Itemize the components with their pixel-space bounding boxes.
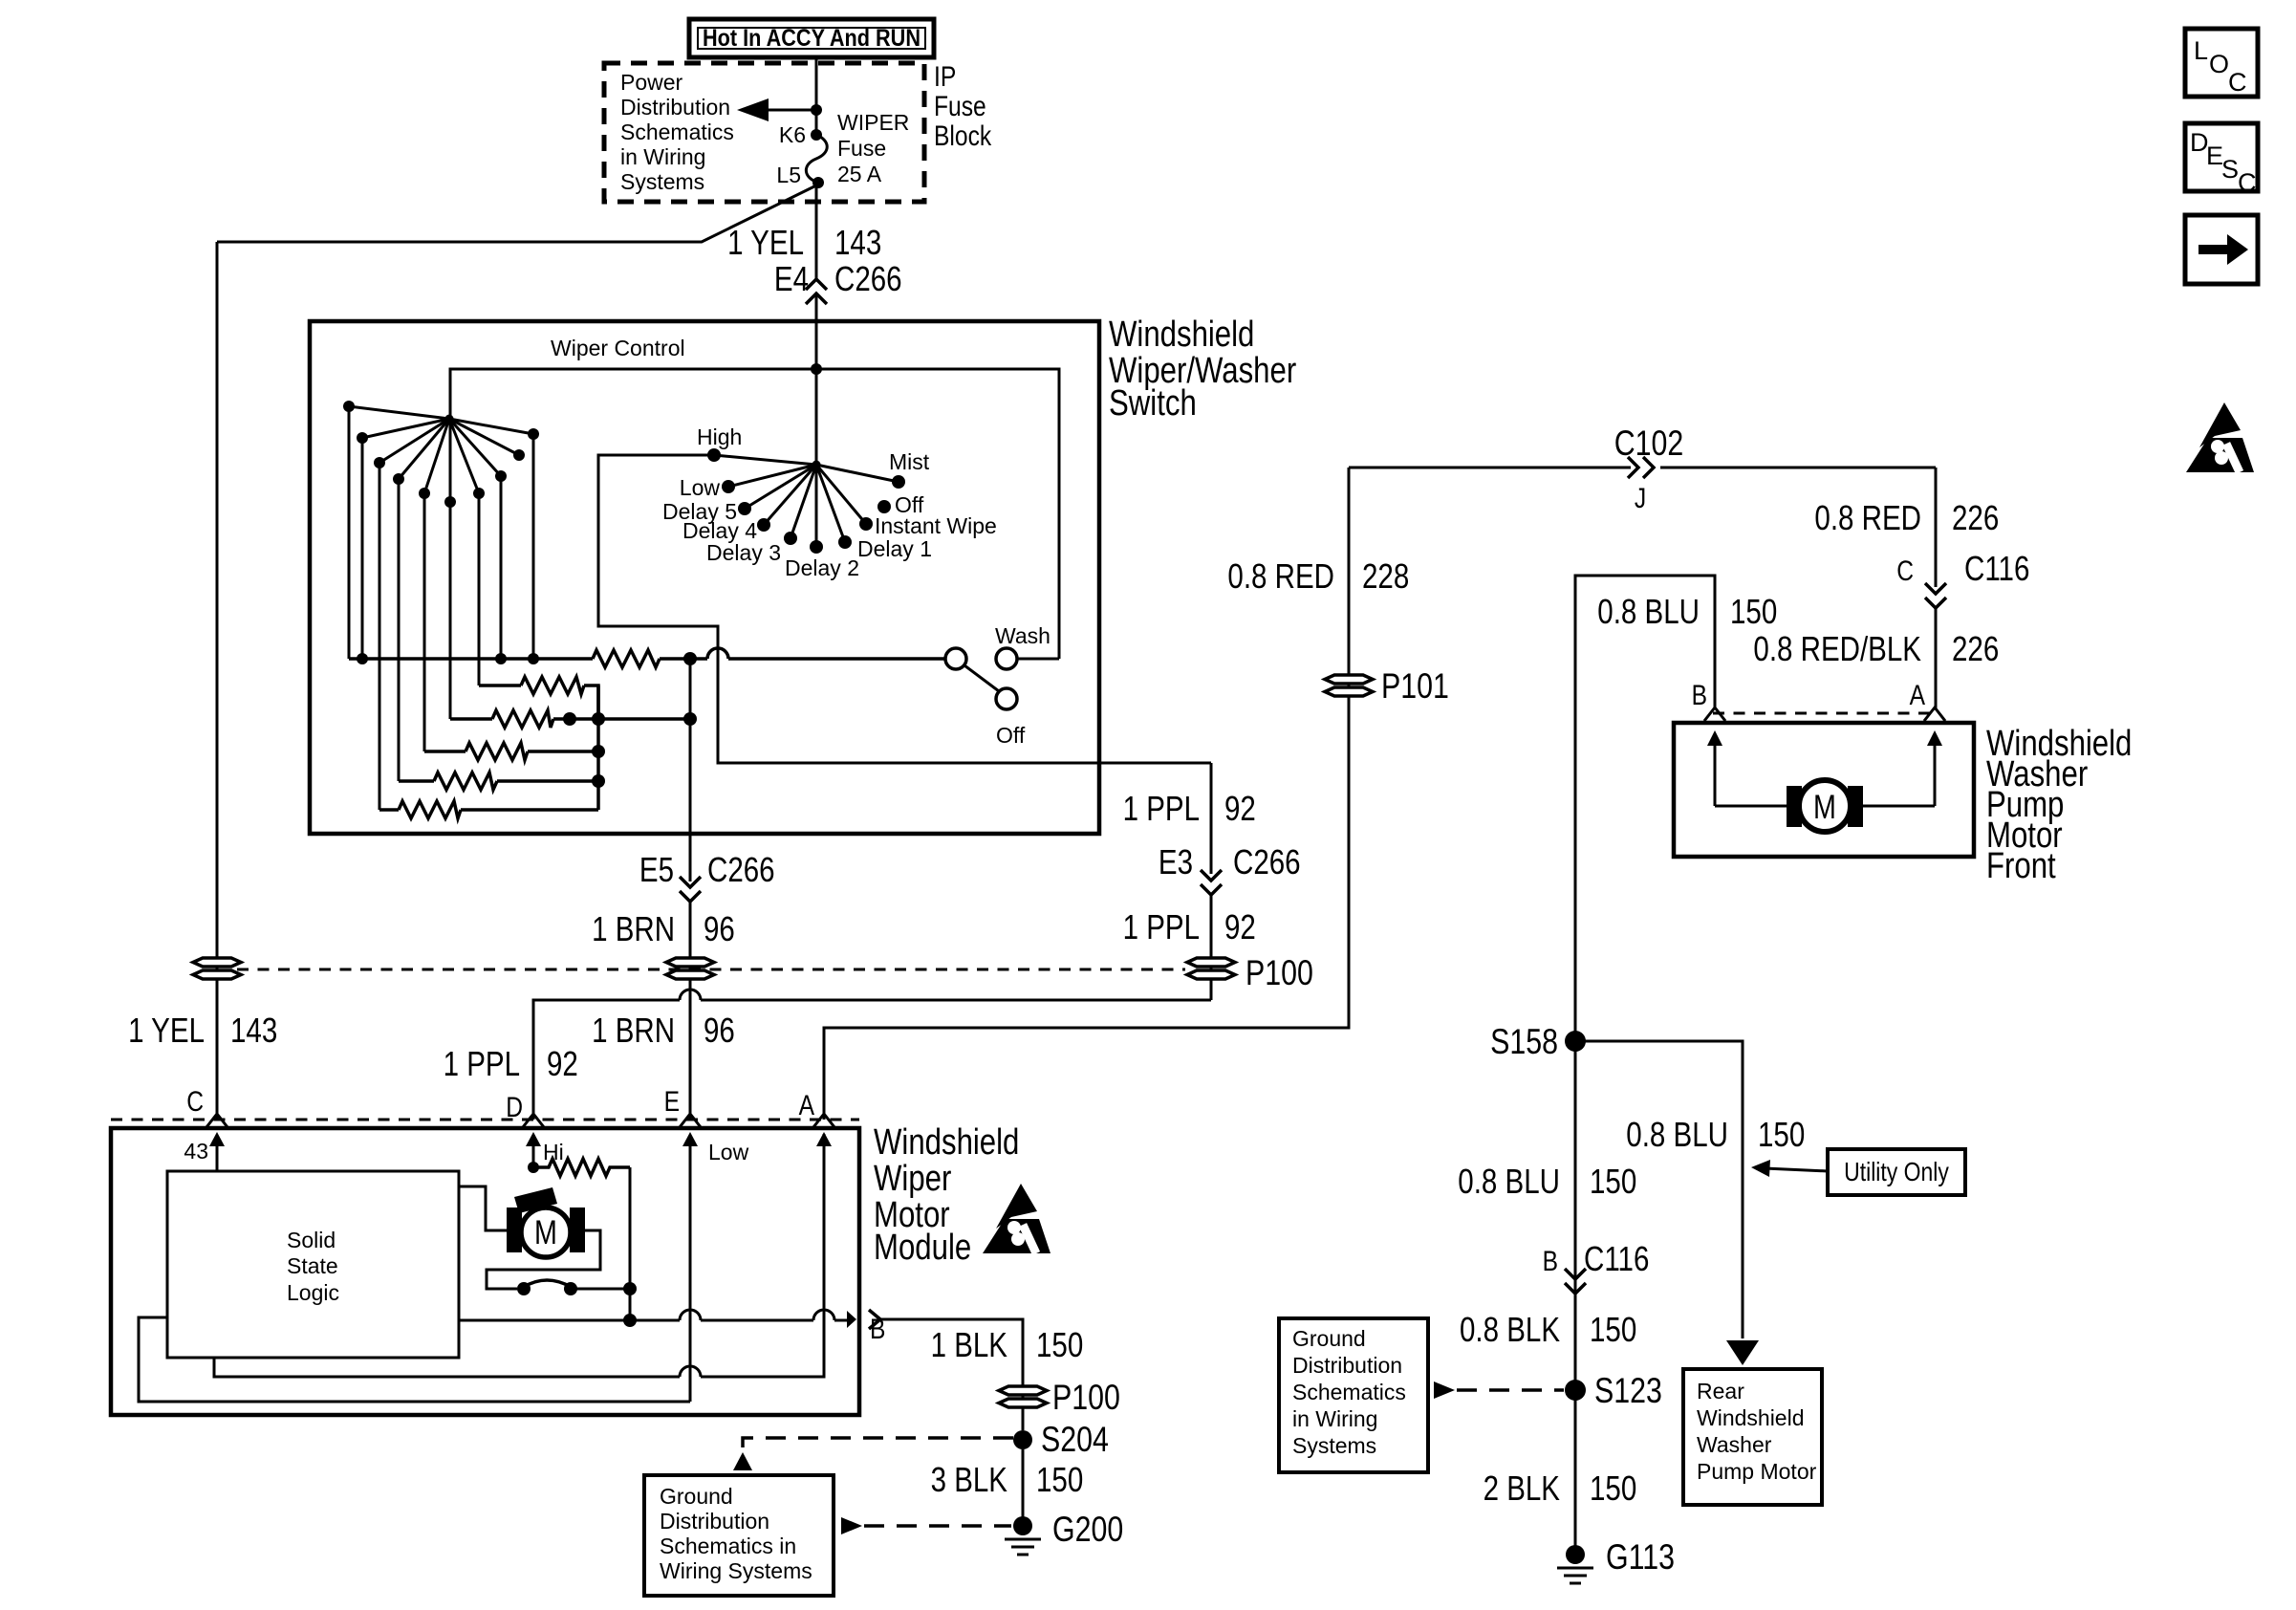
hi resistor tie	[629, 1167, 632, 1320]
park wire to hi tie	[575, 1288, 630, 1291]
svg-text:M: M	[534, 1214, 557, 1251]
svg-text:1 PPL: 1 PPL	[1123, 789, 1200, 828]
inline connector P100 on ppl wire	[1187, 958, 1235, 979]
bus junction dots	[357, 652, 697, 665]
svg-text:K6: K6	[779, 122, 806, 147]
svg-text:226: 226	[1952, 629, 1999, 668]
harness dashed line	[237, 968, 1185, 971]
svg-text:Distribution: Distribution	[1292, 1353, 1402, 1378]
svg-text:A: A	[1910, 680, 1925, 711]
resistor ladder bus	[349, 648, 944, 667]
inline connector P100 on brn wire	[666, 958, 714, 979]
svg-text:L: L	[2194, 36, 2208, 65]
svg-text:Mist: Mist	[889, 449, 930, 474]
svg-text:G113: G113	[1606, 1537, 1675, 1577]
left fan contact dots	[343, 401, 539, 508]
svg-text:Distribution: Distribution	[620, 95, 730, 120]
wire L5 down to C266 E4	[815, 183, 818, 278]
svg-text:Low: Low	[708, 1140, 749, 1164]
node L5	[812, 177, 824, 188]
svg-text:C266: C266	[834, 259, 902, 298]
svg-text:226: 226	[1952, 498, 1999, 537]
resistor R5 row	[399, 772, 598, 790]
svg-text:150: 150	[1036, 1460, 1083, 1499]
dashed ground ref at S204	[743, 1438, 1013, 1449]
wire from feed box into fuse block	[815, 57, 818, 135]
svg-text:Low: Low	[680, 475, 721, 500]
svg-text:L5: L5	[776, 163, 801, 187]
svg-text:Utility Only: Utility Only	[1844, 1157, 1949, 1186]
svg-text:43: 43	[184, 1139, 208, 1164]
svg-text:0.8 BLU: 0.8 BLU	[1597, 592, 1700, 631]
svg-text:Delay 2: Delay 2	[785, 555, 859, 580]
svg-text:E5: E5	[639, 850, 674, 889]
svg-text:Power: Power	[620, 70, 683, 95]
ground distribution note box (left)	[644, 1475, 834, 1596]
wire main pole drop	[815, 369, 818, 547]
svg-text:Instant Wipe: Instant Wipe	[875, 513, 997, 538]
resistor R3 row	[450, 710, 690, 728]
wash switch lever	[964, 665, 999, 691]
connector C102 chevrons	[1628, 457, 1654, 478]
wash contact	[996, 648, 1017, 669]
resistor Hi dropping	[533, 1159, 630, 1176]
svg-text:0.8 BLU: 0.8 BLU	[1458, 1162, 1560, 1201]
node on feed rail	[811, 363, 822, 375]
pin D caret	[523, 1114, 544, 1127]
svg-text:C266: C266	[1233, 842, 1301, 881]
wire B to ground	[879, 1319, 1023, 1430]
svg-text:96: 96	[704, 909, 735, 948]
svg-text:Wiring Systems: Wiring Systems	[660, 1558, 812, 1583]
pin A caret	[813, 1114, 834, 1127]
svg-text:Windshield: Windshield	[874, 1122, 1019, 1163]
svg-text:0.8 RED/BLK: 0.8 RED/BLK	[1753, 629, 1921, 668]
svg-text:B: B	[1543, 1246, 1558, 1277]
svg-text:143: 143	[230, 1011, 277, 1050]
svg-text:92: 92	[1224, 789, 1256, 828]
svg-text:Schematics: Schematics	[620, 120, 734, 144]
inline connector P101	[1325, 675, 1373, 696]
svg-text:Hot In ACCY And RUN: Hot In ACCY And RUN	[703, 25, 921, 52]
svg-text:State: State	[287, 1253, 338, 1278]
svg-text:E3: E3	[1159, 842, 1193, 881]
internal feed rail	[450, 369, 1059, 719]
svg-text:C116: C116	[1584, 1239, 1649, 1278]
wire A to washer feed	[824, 468, 1349, 1120]
svg-text:143: 143	[834, 223, 881, 262]
svg-text:1 YEL: 1 YEL	[128, 1011, 205, 1050]
svg-text:C: C	[1896, 555, 1914, 587]
rear washer pump box	[1683, 1369, 1822, 1505]
svg-text:Wiper: Wiper	[874, 1159, 952, 1199]
ground G200	[1005, 1510, 1123, 1555]
svg-text:1 YEL: 1 YEL	[727, 223, 804, 262]
svg-text:S204: S204	[1041, 1420, 1109, 1459]
svg-text:C: C	[186, 1086, 204, 1118]
pin B wire inside module	[459, 1310, 847, 1320]
pin A caret	[1924, 707, 1945, 721]
svg-text:P101: P101	[1381, 666, 1449, 706]
wire C102 jumper	[1349, 467, 1936, 469]
svg-text:1 PPL: 1 PPL	[1123, 907, 1200, 946]
wire S158 down	[1574, 1041, 1577, 1381]
wiper pole fan wires	[714, 455, 899, 542]
svg-text:Wiper Control: Wiper Control	[551, 336, 685, 360]
svg-text:P100: P100	[1245, 953, 1313, 992]
svg-text:150: 150	[1590, 1162, 1636, 1201]
wire E5 from switch to module	[689, 719, 692, 881]
svg-text:IP: IP	[934, 61, 956, 93]
ground G113	[1557, 1537, 1675, 1583]
washer pin B arrow	[1707, 730, 1722, 806]
high contact branch to E3	[598, 455, 1211, 763]
module connector dashed line	[111, 1119, 859, 1121]
branch to rear washer	[1575, 1041, 1743, 1338]
svg-text:1 PPL: 1 PPL	[444, 1044, 520, 1083]
legend arrow box	[2185, 215, 2258, 284]
svg-text:G200: G200	[1052, 1510, 1123, 1549]
inline connector P100 on yel wire	[193, 958, 241, 979]
svg-text:Solid: Solid	[287, 1228, 336, 1252]
svg-text:Systems: Systems	[1292, 1433, 1376, 1458]
svg-text:C: C	[2238, 168, 2257, 197]
svg-text:C102: C102	[1614, 424, 1684, 463]
resistor R2 row	[479, 677, 598, 719]
wash switch moving contact	[945, 648, 966, 669]
resistor R4 row	[424, 743, 598, 760]
pin B arrow and caret	[847, 1311, 856, 1328]
svg-text:Module: Module	[874, 1228, 971, 1268]
wiper position dots	[707, 448, 905, 554]
svg-text:1 BRN: 1 BRN	[592, 909, 675, 948]
svg-text:Delay 1: Delay 1	[857, 536, 932, 561]
svg-text:Off: Off	[895, 492, 924, 517]
svg-text:Pump Motor: Pump Motor	[1697, 1459, 1817, 1484]
svg-text:1 BRN: 1 BRN	[592, 1011, 675, 1050]
fuse WIPER 25A element	[806, 135, 827, 183]
wire from L5 diagonal to left riser	[217, 185, 818, 242]
motor return loop	[487, 1230, 600, 1289]
pin C caret	[206, 1114, 227, 1127]
svg-text:Block: Block	[934, 120, 992, 152]
svg-text:C: C	[2228, 68, 2247, 97]
svg-text:J: J	[1635, 483, 1646, 514]
svg-text:Windshield: Windshield	[1109, 315, 1254, 355]
svg-text:228: 228	[1362, 556, 1409, 596]
svg-text:O: O	[2209, 50, 2229, 78]
park switch contacts	[517, 1282, 531, 1295]
svg-text:96: 96	[704, 1011, 735, 1050]
svg-text:Distribution: Distribution	[660, 1509, 769, 1534]
left fan hub wires	[349, 406, 533, 493]
branch arrow to power distribution	[737, 98, 822, 121]
svg-text:25 A: 25 A	[837, 162, 882, 186]
svg-text:Fuse: Fuse	[837, 136, 886, 161]
washer pump connector dashed	[1713, 712, 1935, 715]
svg-text:Rear: Rear	[1697, 1379, 1744, 1403]
ladder tie rail	[596, 685, 600, 810]
svg-text:Ground: Ground	[1292, 1326, 1366, 1351]
svg-text:3 BLK: 3 BLK	[931, 1460, 1007, 1499]
svg-text:C116: C116	[1964, 549, 2029, 588]
svg-text:Off: Off	[996, 723, 1026, 748]
pin 43 arrow	[184, 1132, 225, 1171]
node K6	[811, 129, 822, 141]
svg-text:150: 150	[1590, 1469, 1636, 1508]
svg-text:150: 150	[1730, 592, 1777, 631]
resistor R6 row	[379, 801, 598, 818]
svg-text:E: E	[664, 1086, 680, 1118]
wiper motor M	[507, 1187, 585, 1257]
IP fuse block dashed box	[604, 63, 924, 202]
pin B caret	[1704, 707, 1725, 721]
svg-text:Schematics in: Schematics in	[660, 1534, 796, 1558]
svg-text:Fuse: Fuse	[934, 91, 986, 122]
svg-text:150: 150	[1590, 1310, 1636, 1349]
svg-text:150: 150	[1036, 1325, 1083, 1364]
svg-text:S: S	[2221, 155, 2239, 184]
ESD symbol beside module title	[983, 1184, 1051, 1253]
pin E Low arrow	[682, 1132, 749, 1402]
dashed ref to S123	[1434, 1382, 1455, 1399]
ESD symbol legend	[2186, 402, 2254, 472]
wire 2 BLK to G113	[1574, 1390, 1577, 1549]
svg-text:Schematics: Schematics	[1292, 1380, 1406, 1404]
svg-text:B: B	[1692, 680, 1707, 711]
wire 1 PPL 92 from switch to E3	[1210, 763, 1213, 874]
solid state logic box	[167, 1171, 459, 1358]
svg-text:E4: E4	[774, 259, 809, 298]
svg-text:Ground: Ground	[660, 1484, 733, 1509]
legend DESC box	[2185, 123, 2258, 197]
fan hub nodes	[445, 415, 454, 424]
ground distribution note box (right)	[1279, 1318, 1428, 1472]
wash wire to feed rail	[1017, 658, 1059, 661]
svg-text:Washer: Washer	[1697, 1432, 1772, 1457]
svg-text:P100: P100	[1052, 1378, 1120, 1417]
wire 0.8 RED 226 down	[1935, 468, 1938, 587]
wire 1 YEL 143 left riser	[216, 242, 219, 1120]
windshield washer pump motor box	[1674, 723, 1974, 857]
svg-text:1 BLK: 1 BLK	[931, 1325, 1007, 1364]
svg-text:Wash: Wash	[995, 623, 1051, 648]
svg-text:2 BLK: 2 BLK	[1484, 1469, 1560, 1508]
resistor R1	[593, 650, 660, 667]
motor feed from logic	[459, 1186, 509, 1230]
splice S123	[1565, 1380, 1586, 1401]
pin E caret	[680, 1114, 701, 1127]
svg-text:S158: S158	[1490, 1022, 1558, 1061]
svg-text:Front: Front	[1986, 846, 2056, 886]
park switch blade	[524, 1280, 571, 1287]
dashed ref to G200	[841, 1517, 862, 1534]
svg-text:WIPER: WIPER	[837, 110, 909, 135]
svg-text:High: High	[697, 424, 742, 449]
svg-text:M: M	[1813, 789, 1836, 826]
svg-text:in Wiring: in Wiring	[620, 144, 705, 169]
wire 3 BLK to G200	[1022, 1449, 1025, 1520]
windshield wiper motor module box	[111, 1128, 859, 1415]
Hot In ACCY And RUN feed box	[689, 19, 934, 57]
svg-text:Windshield: Windshield	[1697, 1405, 1805, 1430]
wire 0.8 BLU to pin B	[1575, 576, 1715, 1032]
svg-text:150: 150	[1758, 1115, 1805, 1154]
left fan drop wires	[349, 406, 533, 810]
pin A wire inside module	[214, 1134, 824, 1377]
windshield wiper/washer switch box	[310, 321, 1099, 834]
svg-text:Logic: Logic	[287, 1280, 339, 1305]
splice S158	[1565, 1031, 1586, 1052]
utility only note box	[1828, 1149, 1965, 1195]
svg-text:Systems: Systems	[620, 169, 704, 194]
washer motor M	[1715, 780, 1935, 832]
svg-text:0.8 RED: 0.8 RED	[1814, 498, 1921, 537]
splice S204	[1013, 1430, 1032, 1449]
washer pin A arrow	[1927, 730, 1942, 806]
svg-text:Delay 3: Delay 3	[706, 540, 781, 565]
wire 1 PPL to pin D with hop over brn	[533, 990, 1211, 1120]
svg-text:in Wiring: in Wiring	[1292, 1406, 1377, 1431]
svg-text:0.8 RED: 0.8 RED	[1227, 556, 1334, 596]
pin D Hi arrow	[526, 1132, 564, 1173]
off contact	[996, 688, 1017, 709]
svg-text:92: 92	[1224, 907, 1256, 946]
svg-text:C266: C266	[707, 850, 775, 889]
svg-text:0.8 BLK: 0.8 BLK	[1460, 1310, 1560, 1349]
svg-text:S123: S123	[1594, 1371, 1662, 1410]
legend LOC box	[2185, 29, 2258, 97]
utility arrow	[1751, 1160, 1828, 1177]
svg-text:Switch: Switch	[1109, 383, 1197, 424]
svg-text:92: 92	[547, 1044, 578, 1083]
wire bus junction to row3	[689, 659, 692, 719]
svg-text:0.8 BLU: 0.8 BLU	[1626, 1115, 1728, 1154]
svg-text:A: A	[799, 1090, 814, 1121]
pin E return wire	[139, 1317, 690, 1402]
inline connector P100 on blk wire	[999, 1386, 1047, 1407]
